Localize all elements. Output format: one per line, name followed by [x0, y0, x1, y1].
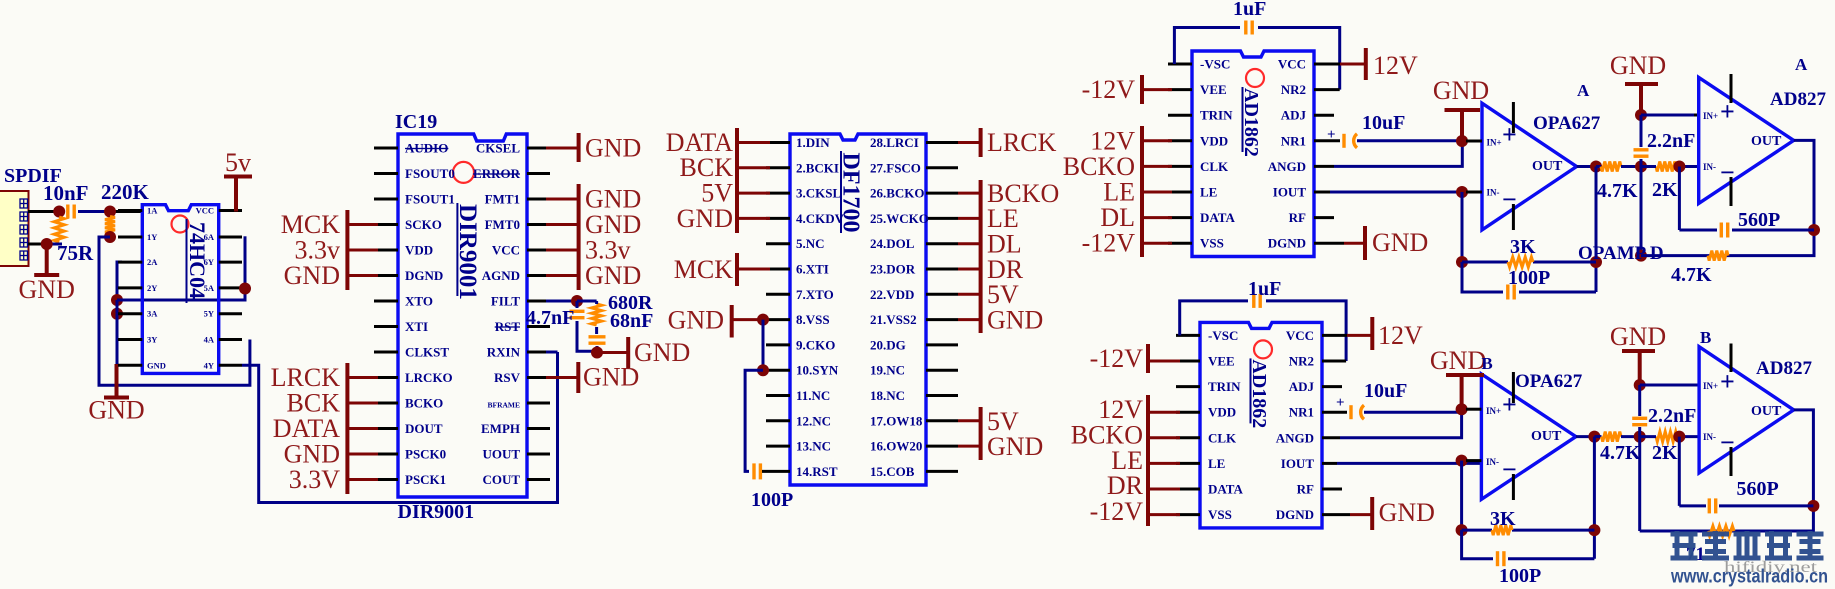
svg-text:DGND: DGND	[405, 268, 443, 283]
svg-text:PSCK0: PSCK0	[405, 447, 446, 462]
svg-text:DOUT: DOUT	[405, 421, 443, 436]
svg-text:+: +	[1327, 127, 1336, 143]
svg-text:A: A	[1577, 81, 1590, 100]
svg-text:FILT: FILT	[491, 294, 520, 309]
svg-text:PSCK1: PSCK1	[405, 472, 446, 487]
svg-text:19.NC: 19.NC	[870, 363, 905, 378]
svg-text:3.CKSL: 3.CKSL	[796, 186, 841, 201]
svg-text:XTI: XTI	[405, 319, 428, 334]
svg-text:GND: GND	[668, 306, 724, 335]
svg-text:GND: GND	[585, 134, 641, 163]
svg-text:28.LRCI: 28.LRCI	[870, 135, 919, 150]
svg-text:3Y: 3Y	[147, 335, 157, 345]
svg-text:DGND: DGND	[1276, 507, 1314, 522]
svg-text:22.VDD: 22.VDD	[870, 287, 914, 302]
svg-text:5Y: 5Y	[204, 309, 214, 319]
svg-text:21.VSS2: 21.VSS2	[870, 312, 917, 327]
svg-text:2K: 2K	[1652, 179, 1678, 201]
svg-text:12.NC: 12.NC	[796, 413, 831, 428]
svg-text:+: +	[1336, 395, 1345, 411]
svg-text:-12V: -12V	[1090, 344, 1144, 373]
svg-text:OPAMP D: OPAMP D	[1578, 243, 1664, 264]
svg-text:NR2: NR2	[1289, 354, 1314, 369]
svg-text:3K: 3K	[1510, 236, 1536, 258]
svg-text:10uF: 10uF	[1362, 112, 1405, 134]
svg-text:www.crystalradio.cn: www.crystalradio.cn	[1670, 567, 1828, 588]
svg-text:IC19: IC19	[395, 111, 437, 133]
svg-text:5A: 5A	[204, 283, 215, 293]
svg-text:1A: 1A	[147, 206, 158, 216]
svg-text:14.RST: 14.RST	[796, 464, 838, 479]
svg-text:9.CKO: 9.CKO	[796, 337, 835, 352]
svg-text:26.BCKO: 26.BCKO	[870, 186, 925, 201]
svg-text:GND: GND	[987, 306, 1043, 335]
svg-text:220K: 220K	[101, 180, 150, 204]
svg-text:A: A	[1795, 55, 1808, 74]
svg-text:GND: GND	[585, 261, 641, 290]
svg-text:SCKO: SCKO	[405, 217, 442, 232]
svg-text:AD1862: AD1862	[1240, 88, 1262, 157]
svg-text:IOUT: IOUT	[1273, 185, 1307, 200]
svg-text:CLK: CLK	[1208, 430, 1237, 445]
svg-text:18.NC: 18.NC	[870, 388, 905, 403]
svg-text:GND: GND	[1610, 51, 1666, 80]
svg-text:27.FSCO: 27.FSCO	[870, 160, 921, 175]
svg-text:2K: 2K	[1652, 442, 1678, 464]
svg-text:UOUT: UOUT	[482, 447, 520, 462]
svg-text:LE: LE	[1200, 185, 1217, 200]
svg-text:3.3V: 3.3V	[289, 465, 341, 494]
svg-text:IN-: IN-	[1487, 188, 1500, 198]
svg-text:IN+: IN+	[1486, 406, 1501, 416]
svg-text:ERROR: ERROR	[473, 166, 521, 181]
svg-text:NR2: NR2	[1281, 82, 1306, 97]
svg-text:4.7nF: 4.7nF	[526, 307, 574, 329]
svg-text:IN-: IN-	[1486, 457, 1499, 467]
svg-text:−: −	[1720, 428, 1735, 457]
svg-text:GND: GND	[147, 360, 166, 370]
svg-text:17.OW18: 17.OW18	[870, 413, 923, 428]
svg-text:TRIN: TRIN	[1208, 379, 1241, 394]
svg-text:RF: RF	[1297, 482, 1314, 497]
svg-text:4.7K: 4.7K	[1671, 264, 1712, 286]
svg-text:23.DOR: 23.DOR	[870, 262, 916, 277]
svg-text:ADJ: ADJ	[1281, 108, 1307, 123]
svg-text:AD827: AD827	[1770, 89, 1826, 110]
svg-text:B: B	[1700, 328, 1711, 347]
svg-text:VDD: VDD	[1208, 405, 1236, 420]
svg-text:11.NC: 11.NC	[796, 388, 830, 403]
svg-text:2.BCKI: 2.BCKI	[796, 160, 839, 175]
svg-text:NR1: NR1	[1281, 133, 1306, 148]
svg-text:VCC: VCC	[492, 243, 520, 258]
svg-text:TRIN: TRIN	[1200, 108, 1233, 123]
svg-text:6.XTI: 6.XTI	[796, 262, 829, 277]
svg-text:100P: 100P	[1499, 565, 1541, 587]
svg-text:RSV: RSV	[494, 370, 521, 385]
svg-text:FSOUT1: FSOUT1	[405, 192, 455, 207]
svg-text:OPA627: OPA627	[1515, 371, 1583, 392]
svg-text:FMT0: FMT0	[485, 217, 520, 232]
svg-text:IN-: IN-	[1703, 432, 1716, 442]
svg-text:VDD: VDD	[405, 243, 433, 258]
svg-text:ADJ: ADJ	[1289, 379, 1315, 394]
svg-text:2.2nF: 2.2nF	[1647, 130, 1695, 152]
svg-text:68nF: 68nF	[610, 310, 653, 332]
svg-text:GND: GND	[677, 204, 733, 233]
svg-text:4.7K: 4.7K	[1600, 442, 1641, 464]
svg-text:-VSC: -VSC	[1200, 57, 1230, 72]
svg-text:100P: 100P	[751, 489, 793, 511]
svg-text:CKSEL: CKSEL	[476, 141, 520, 156]
svg-text:RF: RF	[1289, 210, 1306, 225]
svg-text:LRCK: LRCK	[987, 128, 1057, 157]
svg-text:VSS: VSS	[1200, 236, 1224, 251]
svg-text:7.XTO: 7.XTO	[796, 287, 834, 302]
svg-text:NR1: NR1	[1289, 405, 1314, 420]
svg-text:6A: 6A	[204, 232, 215, 242]
svg-text:IN+: IN+	[1487, 138, 1502, 148]
svg-text:1uF: 1uF	[1233, 0, 1266, 20]
svg-text:−: −	[1502, 455, 1517, 484]
svg-text:12V: 12V	[1373, 51, 1418, 80]
svg-text:OUT: OUT	[1751, 404, 1782, 419]
svg-text:AUDIO: AUDIO	[405, 141, 448, 156]
svg-text:ANGD: ANGD	[1276, 430, 1314, 445]
svg-text:+: +	[1720, 97, 1735, 126]
svg-text:−: −	[1502, 185, 1517, 214]
svg-text:GND: GND	[987, 432, 1043, 461]
svg-text:12V: 12V	[1378, 321, 1423, 350]
svg-text:OPA627: OPA627	[1533, 113, 1601, 134]
svg-text:IN-: IN-	[1703, 162, 1716, 172]
svg-text:IN+: IN+	[1703, 381, 1718, 391]
svg-text:DATA: DATA	[1200, 210, 1236, 225]
svg-text:16.OW20: 16.OW20	[870, 439, 922, 454]
svg-text:25.WCKO: 25.WCKO	[870, 211, 929, 226]
svg-text:5.NC: 5.NC	[796, 236, 825, 251]
svg-text:5v: 5v	[225, 148, 251, 177]
svg-text:RXIN: RXIN	[487, 345, 521, 360]
svg-text:B: B	[1481, 354, 1492, 373]
svg-text:OUT: OUT	[1531, 429, 1562, 444]
svg-text:4A: 4A	[204, 335, 215, 345]
svg-text:AGND: AGND	[482, 268, 520, 283]
svg-text:-12V: -12V	[1090, 497, 1144, 526]
svg-text:+: +	[1502, 390, 1517, 419]
svg-text:VCC: VCC	[1286, 328, 1314, 343]
svg-text:100P: 100P	[1508, 267, 1550, 289]
svg-text:2Y: 2Y	[147, 283, 157, 293]
svg-text:FMT1: FMT1	[485, 192, 520, 207]
svg-text:GND: GND	[88, 396, 144, 425]
svg-text:24.DOL: 24.DOL	[870, 236, 915, 251]
svg-text:CLK: CLK	[1200, 159, 1229, 174]
svg-text:20.DG: 20.DG	[870, 337, 906, 352]
svg-text:EMPH: EMPH	[481, 421, 520, 436]
svg-text:560P: 560P	[1737, 478, 1779, 500]
svg-text:XTO: XTO	[405, 294, 433, 309]
svg-text:DIR9001: DIR9001	[398, 501, 475, 523]
svg-text:VCC: VCC	[1278, 57, 1306, 72]
svg-text:FSOUT0: FSOUT0	[405, 166, 455, 181]
svg-text:−: −	[1720, 158, 1735, 187]
svg-text:VDD: VDD	[1200, 133, 1228, 148]
svg-text:-12V: -12V	[1082, 75, 1136, 104]
svg-text:DGND: DGND	[1268, 236, 1306, 251]
svg-text:AD827: AD827	[1756, 358, 1812, 379]
svg-text:13.NC: 13.NC	[796, 439, 831, 454]
svg-text:6Y: 6Y	[204, 257, 214, 267]
svg-text:10nF: 10nF	[43, 181, 89, 205]
svg-text:GND: GND	[1379, 498, 1435, 527]
svg-text:LE: LE	[1208, 456, 1225, 471]
svg-text:GND: GND	[1372, 228, 1428, 257]
svg-text:4.7K: 4.7K	[1597, 180, 1638, 202]
svg-text:8.VSS: 8.VSS	[796, 312, 830, 327]
svg-text:4.CKDV: 4.CKDV	[796, 211, 845, 226]
svg-text:OUT: OUT	[1532, 159, 1563, 174]
svg-text:560P: 560P	[1738, 209, 1780, 231]
svg-text:15.COB: 15.COB	[870, 464, 915, 479]
svg-text:GND: GND	[1610, 322, 1666, 351]
svg-text:OUT: OUT	[1751, 134, 1782, 149]
svg-text:LRCKO: LRCKO	[405, 370, 453, 385]
svg-text:2A: 2A	[147, 257, 158, 267]
svg-text:GND: GND	[583, 363, 639, 392]
svg-text:2.2nF: 2.2nF	[1648, 405, 1696, 427]
svg-text:DIR9001: DIR9001	[454, 204, 481, 300]
svg-text:10.SYN: 10.SYN	[796, 363, 839, 378]
svg-text:3K: 3K	[1490, 508, 1516, 530]
svg-text:ANGD: ANGD	[1268, 159, 1306, 174]
svg-text:-VSC: -VSC	[1208, 328, 1238, 343]
svg-text:GND: GND	[19, 275, 75, 304]
svg-text:BCKO: BCKO	[405, 396, 443, 411]
svg-text:RST: RST	[495, 319, 521, 334]
svg-text:IOUT: IOUT	[1281, 456, 1315, 471]
svg-text:MCK: MCK	[674, 255, 733, 284]
svg-text:75R: 75R	[57, 241, 94, 265]
svg-text:AD1862: AD1862	[1248, 359, 1270, 428]
svg-text:CLKST: CLKST	[405, 345, 449, 360]
svg-text:GND: GND	[284, 261, 340, 290]
svg-text:10uF: 10uF	[1364, 380, 1407, 402]
svg-text:1.DIN: 1.DIN	[796, 135, 830, 150]
svg-text:BFRAME: BFRAME	[488, 401, 521, 410]
svg-text:1Y: 1Y	[147, 232, 157, 242]
svg-text:-12V: -12V	[1082, 229, 1136, 258]
svg-text:DATA: DATA	[1208, 482, 1244, 497]
svg-text:IN+: IN+	[1703, 111, 1718, 121]
svg-text:VCC: VCC	[196, 206, 214, 216]
svg-text:GND: GND	[634, 338, 690, 367]
svg-text:1uF: 1uF	[1248, 278, 1281, 300]
svg-text:+: +	[1720, 367, 1735, 396]
svg-text:+: +	[1502, 120, 1517, 149]
svg-text:VSS: VSS	[1208, 507, 1232, 522]
svg-text:VEE: VEE	[1200, 82, 1227, 97]
svg-text:GND: GND	[1433, 76, 1489, 105]
svg-text:3A: 3A	[147, 309, 158, 319]
svg-text:VEE: VEE	[1208, 354, 1235, 369]
svg-text:COUT: COUT	[482, 472, 520, 487]
svg-text:4Y: 4Y	[204, 360, 214, 370]
svg-text:DR: DR	[1107, 471, 1144, 500]
svg-text:GND: GND	[1430, 346, 1486, 375]
